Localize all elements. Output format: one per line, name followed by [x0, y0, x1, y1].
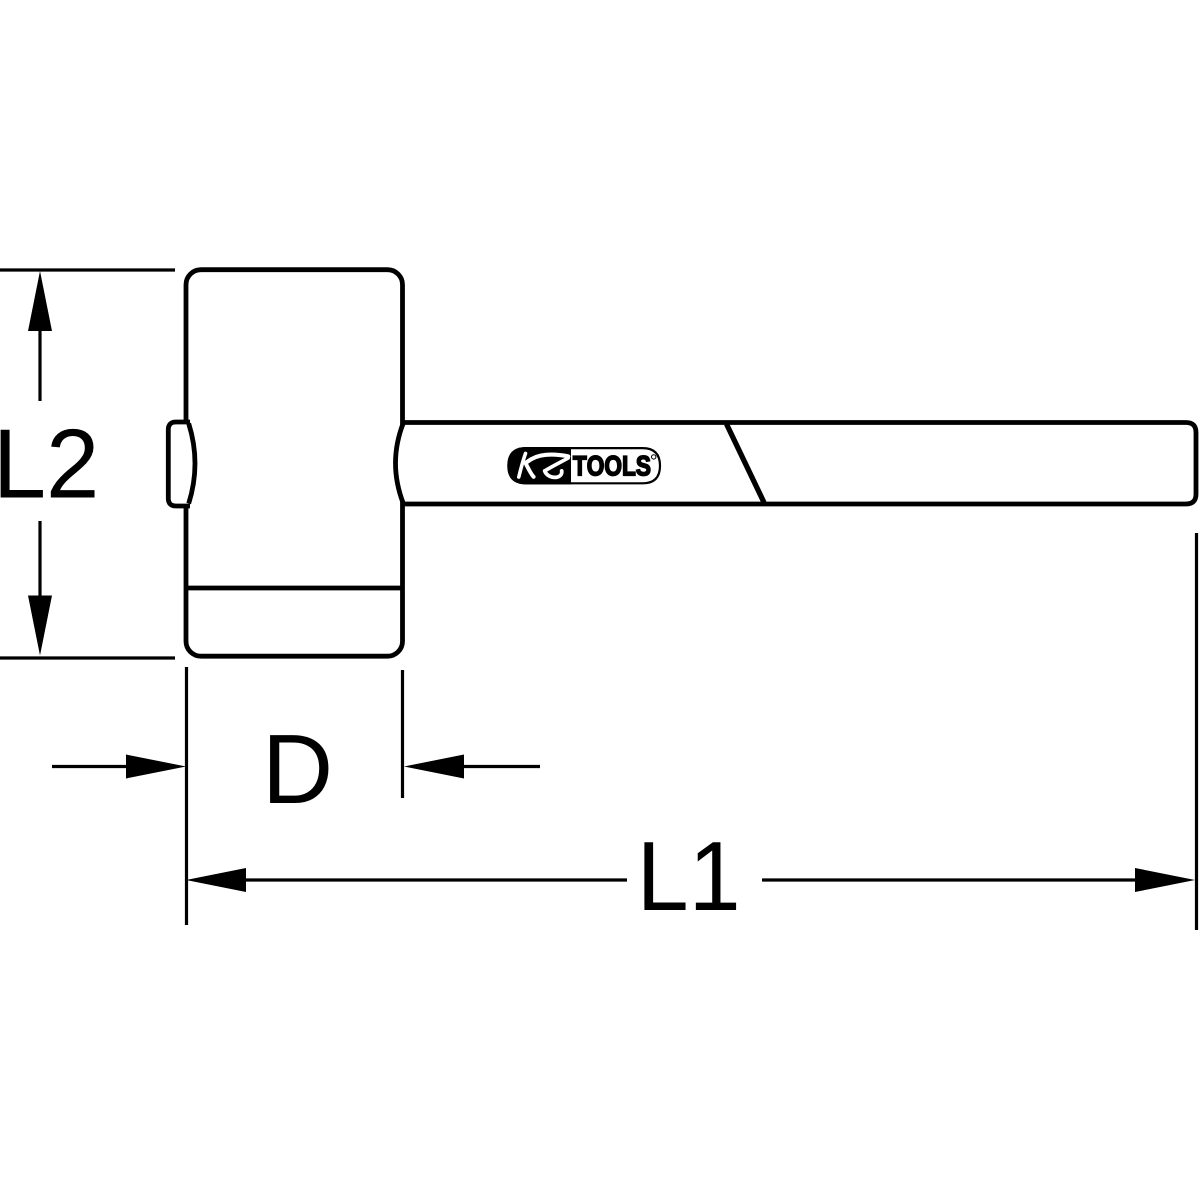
logo KS script: [519, 454, 569, 478]
L2 dimension arrow up: [28, 271, 52, 331]
handle: [396, 423, 1197, 505]
bump face arc: [189, 424, 195, 504]
L1 dimension arrow left: [186, 868, 246, 892]
extension line far right vertical (L1 right): [1195, 533, 1198, 930]
KS TOOLS logo pill: [507, 447, 660, 484]
svg-text:L2: L2: [0, 409, 99, 519]
logo registered mark: [652, 455, 656, 459]
logo TOOLS text: [573, 456, 650, 476]
L2 dimension arrow down: [28, 596, 52, 656]
hammer head: [186, 270, 403, 657]
svg-text:D: D: [262, 714, 333, 824]
extension line left vertical (D/L1 left): [185, 667, 188, 925]
L2 dimension line upper: [38, 330, 41, 401]
L2 dimension line lower: [38, 521, 41, 596]
D dimension right tail: [460, 765, 540, 768]
D dimension arrow left-pointing: [404, 755, 464, 779]
L1 dimension line left: [244, 878, 627, 881]
D dimension arrow right-pointing: [126, 755, 186, 779]
L1 dimension arrow right: [1135, 868, 1195, 892]
svg-text:L1: L1: [637, 821, 741, 931]
left striking face (bump): [168, 422, 190, 506]
D dimension left tail: [52, 765, 130, 768]
head face parting line: [186, 586, 403, 591]
extension line right vertical (D right): [401, 670, 404, 798]
handle grip diagonal: [727, 424, 765, 503]
L1 dimension line right: [762, 878, 1137, 881]
extension line bottom (head bottom, for L2): [0, 656, 175, 659]
extension line top (head top, for L2): [0, 268, 175, 271]
